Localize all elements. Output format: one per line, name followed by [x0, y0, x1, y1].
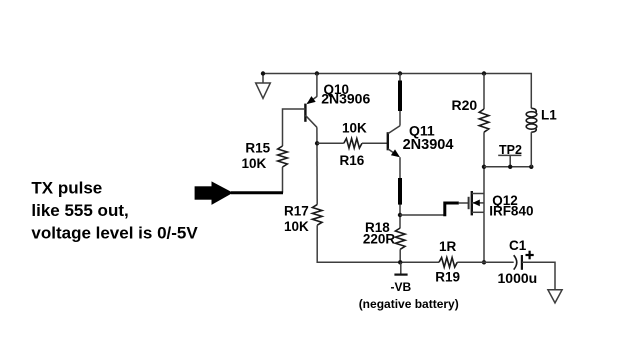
svg-text:Q11: Q11: [409, 122, 435, 138]
node: top rail left junction: [261, 71, 265, 75]
node: R18 bottom rail junction: [398, 260, 402, 264]
node: R16 branch junction: [315, 141, 319, 145]
wire Q11 collector vertical (thin): [399, 74, 401, 126]
ground bottom-right: [548, 290, 562, 303]
wire R17 bottom and bottom rail left segment: [317, 225, 439, 262]
mosfet Q12: [469, 191, 484, 215]
wire R20 bottom to Q12 drain: [483, 132, 485, 193]
wire Q11 emitter vertical (thin): [399, 157, 401, 228]
wire top rail and L1 top lead: [263, 74, 531, 109]
node: gate branch junction: [398, 213, 402, 217]
node: Q12 source bottom junction: [482, 260, 486, 264]
svg-text:voltage level is 0/-5V: voltage level is 0/-5V: [31, 224, 198, 243]
net -VB marker: [394, 262, 407, 274]
resistor R17: [312, 205, 322, 226]
wire R20 top lead: [483, 74, 485, 110]
resistor R19: [439, 258, 457, 268]
wire Q11 emitter thick highlight: [398, 178, 402, 205]
wire C1 right and ground drop: [522, 262, 555, 290]
node: R20 top junction: [482, 71, 486, 75]
transistor Q11: [388, 126, 400, 158]
wire bottom rail R19 to C1: [457, 261, 513, 263]
svg-text:TP2: TP2: [499, 143, 522, 157]
svg-text:R15: R15: [245, 141, 270, 156]
resistor R15: [278, 146, 288, 167]
svg-text:R16: R16: [340, 153, 365, 168]
svg-text:C1: C1: [509, 238, 527, 253]
wire Q12 source vertical: [483, 212, 485, 262]
wire Q10 base lead and R15 top lead: [283, 109, 306, 146]
test point TP2 marker: [498, 155, 521, 166]
wire Q10 emitter vertical: [316, 74, 318, 97]
inductor L1: [526, 108, 537, 132]
svg-text:220R: 220R: [363, 232, 396, 247]
transistor Q10: [305, 96, 317, 127]
wire Q10 collector vertical: [316, 127, 318, 204]
wire TP2 horizontal: [484, 166, 531, 168]
svg-text:10K: 10K: [284, 219, 309, 234]
svg-text:like 555 out,: like 555 out,: [31, 201, 128, 220]
svg-text:(negative battery): (negative battery): [359, 297, 459, 311]
resistor R18: [395, 228, 405, 249]
label + polarity: [526, 251, 534, 260]
wire gate net thin segment: [400, 214, 445, 216]
wire R18 bottom lead: [399, 249, 401, 262]
svg-text:2N3904: 2N3904: [403, 137, 454, 153]
node: Q10 emitter junction: [315, 71, 319, 75]
ground top-left: [256, 74, 271, 99]
svg-text:TX pulse: TX pulse: [31, 179, 102, 198]
svg-text:R20: R20: [452, 97, 478, 113]
wire gate lead: [459, 202, 468, 204]
capacitor C1: [514, 255, 522, 270]
svg-text:-VB: -VB: [391, 280, 412, 294]
svg-text:L1: L1: [541, 108, 557, 123]
node: L1 bottom junction: [529, 165, 533, 169]
svg-text:R17: R17: [284, 203, 309, 218]
svg-text:10K: 10K: [242, 156, 267, 171]
svg-text:10K: 10K: [342, 120, 367, 135]
wire Q11 collector thick highlight: [398, 81, 402, 112]
node: TP2 wire left junction: [482, 165, 486, 169]
wire R16 left lead: [317, 142, 344, 144]
svg-text:R19: R19: [435, 270, 460, 285]
svg-text:1000u: 1000u: [498, 270, 538, 286]
wire gate net thick jog: [445, 203, 459, 216]
resistor R16: [344, 139, 362, 149]
TX input arrow: [195, 181, 233, 205]
svg-text:IRF840: IRF840: [489, 204, 533, 219]
node: TP2 tick junction: [508, 165, 512, 169]
wire TX input thick line: [231, 191, 283, 194]
wire R15 bottom lead: [282, 167, 284, 193]
svg-text:2N3906: 2N3906: [321, 90, 370, 106]
wire R16 right lead: [362, 142, 388, 144]
node: Q11 collector junction: [398, 71, 402, 75]
svg-text:1R: 1R: [439, 239, 457, 254]
wire L1 bottom lead: [530, 132, 532, 167]
resistor R20: [479, 109, 489, 132]
